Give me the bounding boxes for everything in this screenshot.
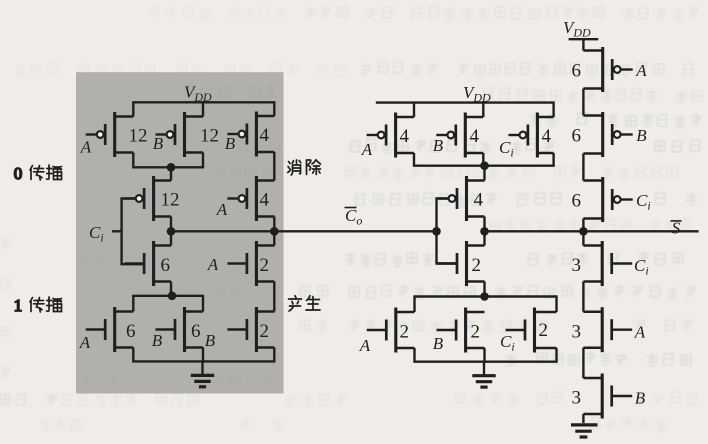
transistor N10 (NMOS, gate Ci, W=3) — [583, 241, 632, 286]
node junction right branch on carry node — [270, 227, 279, 236]
svg-text:A: A — [635, 61, 647, 80]
carry-gate region highlight (shaded box) — [76, 72, 284, 393]
svg-text:A: A — [359, 336, 371, 355]
node junction sum N-net — [480, 292, 489, 301]
transistor P3 (PMOS, gate Ci, W=12) — [125, 176, 171, 221]
wire P10 drain to P11 source — [582, 89, 584, 116]
power rail VDD (carry gate) — [133, 101, 274, 103]
svg-text:4: 4 — [470, 126, 480, 147]
wire P9 drain to sum node — [483, 217, 485, 232]
wire node down to N9 drain — [555, 297, 557, 313]
svg-text:0: 0 — [14, 164, 23, 183]
wire N8 source to ground bus — [483, 348, 485, 362]
transistor P10 (PMOS, gate A, W=6) — [583, 47, 632, 92]
wire N4 source to ground bus — [273, 348, 275, 362]
wire node N3/N5 drains — [132, 295, 204, 297]
node junction gate tap on carry line — [432, 227, 441, 236]
transistor P2 (PMOS, gate B, W=12) — [156, 112, 204, 157]
svg-text:12: 12 — [129, 126, 148, 147]
wire P8 drain down — [552, 153, 554, 166]
transistor P11 (PMOS, gate B, W=6) — [583, 112, 632, 157]
wire sum node to N6 drain — [483, 231, 485, 245]
wire N7 source to ground bus — [413, 348, 415, 362]
svg-text:12: 12 — [161, 190, 180, 211]
wire P11 drain to P12 source — [582, 154, 584, 181]
svg-text:1: 1 — [14, 296, 23, 315]
input lead Ci — [112, 230, 122, 232]
wire carry output Co-bar line — [171, 230, 437, 232]
svg-text:B: B — [225, 134, 236, 153]
svg-text:4: 4 — [260, 125, 270, 146]
wire N5 source to ground bus — [202, 348, 204, 362]
wire VDD to P2 source — [202, 101, 204, 116]
svg-text:3: 3 — [572, 388, 582, 409]
svg-text:B: B — [433, 136, 444, 155]
wire VDD to P4 source — [273, 101, 275, 116]
transistor N6 (NMOS, gate Co-bar, W=2) — [438, 241, 485, 286]
svg-text:2: 2 — [471, 322, 481, 343]
svg-text:A: A — [207, 255, 219, 274]
wire VDD to P10 source — [582, 39, 584, 50]
svg-text:2: 2 — [400, 322, 410, 343]
svg-text:4: 4 — [260, 190, 270, 211]
node junction N-pair — [168, 292, 177, 301]
transistor P12 (PMOS, gate Ci, W=6) — [583, 177, 632, 222]
node junction P-pair — [167, 163, 176, 172]
svg-text:A: A — [634, 323, 646, 342]
wire P3 drain to carry output node — [170, 217, 172, 232]
ground bus (carry gate) — [132, 360, 275, 362]
wire sum output S-bar line — [485, 230, 699, 232]
svg-text:2: 2 — [539, 320, 549, 341]
transistor N11 (NMOS, gate A, W=3) — [583, 307, 632, 352]
transistor P4 (PMOS, gate B, W=4) — [227, 112, 274, 157]
transistor P7 (PMOS, gate B, W=4) — [436, 113, 483, 158]
svg-text:6: 6 — [572, 61, 582, 82]
transistor N8 (NMOS, gate B, W=2) — [437, 308, 485, 353]
annotation "kill" — [288, 160, 321, 175]
svg-text:4: 4 — [474, 190, 484, 211]
node junction right chain on sum line — [579, 227, 588, 236]
svg-text:A: A — [80, 138, 92, 157]
svg-text:2: 2 — [260, 321, 270, 342]
node junction Ci-inverter drains on carry node — [167, 227, 176, 236]
wire VDD to P7 source — [482, 102, 484, 118]
wire node N7/N8/N9 drains — [413, 295, 557, 297]
svg-text:B: B — [153, 134, 164, 153]
transistor P5 (PMOS, gate A, W=4) — [227, 176, 274, 221]
wire N6 source to N-net node — [483, 282, 485, 297]
wire P2 drain down — [202, 153, 204, 168]
svg-text:6: 6 — [191, 321, 201, 342]
transistor N12 (NMOS, gate B, W=3) — [583, 374, 632, 419]
ground symbol (sum gate) — [472, 362, 495, 387]
annotation "0 propagate" — [14, 164, 62, 183]
svg-text:B: B — [636, 126, 647, 145]
svg-text:4: 4 — [542, 126, 552, 147]
svg-text:3: 3 — [572, 322, 582, 343]
node junction sum P-net — [480, 161, 489, 170]
svg-text:2: 2 — [472, 255, 482, 276]
transistor N7 (NMOS, gate A, W=2) — [367, 308, 415, 353]
svg-text:A: A — [79, 333, 91, 352]
ground symbol (carry gate) — [191, 361, 214, 386]
svg-text:6: 6 — [572, 191, 582, 212]
transistor N2 (NMOS, gate A, W=2) — [227, 241, 274, 286]
annotation "generate" — [289, 296, 321, 311]
wire P1 drain down — [132, 153, 134, 168]
wire carry node to N2 drain — [273, 231, 275, 245]
wire P4 drain to P5 source — [273, 152, 275, 181]
wire VDD to P1 source — [132, 101, 134, 116]
transistor N9 (NMOS, gate Ci, W=2) — [506, 308, 557, 353]
wire Ci gate link (to P3 and N1 gates) — [122, 199, 145, 265]
transistor P9 (PMOS, gate Co-bar, W=4) — [438, 176, 485, 221]
svg-text:6: 6 — [572, 126, 582, 147]
svg-text:B: B — [635, 389, 646, 408]
wire N2 source to N4 drain — [273, 282, 275, 312]
transistor N3 (NMOS, gate A, W=6) — [86, 307, 134, 352]
wire node down to N3 drain — [132, 296, 134, 312]
wire P12 drain to sum line — [582, 219, 584, 232]
wire node to P9 source — [483, 166, 485, 181]
svg-text:B: B — [205, 331, 216, 350]
transistor N4 (NMOS, gate B, W=2) — [227, 307, 274, 352]
power rail VDD (sum gate) — [376, 101, 554, 103]
svg-text:4: 4 — [400, 126, 410, 147]
node junction sum output — [480, 227, 489, 236]
svg-text:12: 12 — [200, 126, 219, 147]
wire N12 source down — [582, 414, 584, 423]
ground bus (sum gate) — [413, 361, 557, 363]
wire VDD to P6 source — [413, 102, 415, 118]
wire N1 source to N-pair node — [170, 282, 172, 296]
wire N3 source to ground bus — [132, 348, 134, 362]
transistor P1 (PMOS, gate A, W=12) — [86, 112, 134, 157]
wire N10 source to N11 drain — [582, 282, 584, 312]
ground symbol (series branch) — [571, 425, 598, 437]
transistor P6 (PMOS, gate A, W=4) — [367, 113, 414, 158]
svg-text:B: B — [433, 334, 444, 353]
wire VDD to P8 source — [552, 102, 554, 118]
wire N9 source to ground bus — [555, 348, 557, 362]
power rail VDD (series branch) — [569, 38, 599, 40]
wire gate link Co-bar to P9/N6 gates — [437, 199, 458, 264]
wire P7 drain down — [482, 153, 484, 166]
wire P5 drain to carry node — [273, 217, 275, 232]
annotation "1 propagate" — [14, 296, 62, 315]
svg-text:B: B — [152, 331, 163, 350]
wire node P6/P7/P8 drains — [413, 164, 555, 166]
transistor N5 (NMOS, gate B, W=6) — [156, 307, 204, 352]
svg-text:A: A — [216, 200, 228, 219]
wire node to P3 source — [170, 167, 172, 180]
svg-text:3: 3 — [572, 255, 582, 276]
wire node down to N5 drain — [202, 296, 204, 312]
svg-text:A: A — [361, 140, 373, 159]
wire node down to N7 drain — [413, 297, 415, 313]
svg-text:6: 6 — [161, 255, 171, 276]
wire N11 source to N12 drain — [582, 348, 584, 378]
svg-text:6: 6 — [126, 321, 136, 342]
transistor P8 (PMOS, gate Ci, W=4) — [508, 113, 553, 158]
wire carry node to N1 drain — [170, 231, 172, 245]
svg-text:2: 2 — [260, 255, 270, 276]
wire sum line to N10 drain — [582, 231, 584, 245]
transistor N1 (NMOS, gate Ci, W=6) — [125, 241, 171, 286]
wire P6 drain down — [413, 153, 415, 166]
wire node P1/P2 drains — [132, 166, 204, 168]
